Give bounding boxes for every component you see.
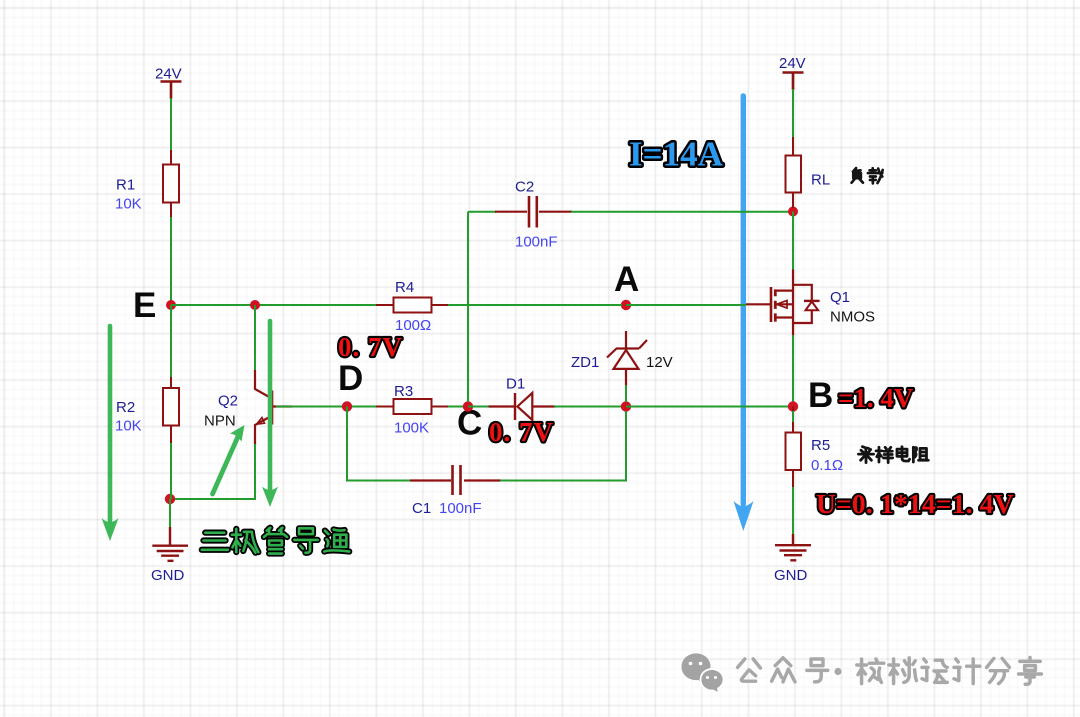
wire xyxy=(792,212,794,271)
watermark xyxy=(681,653,1041,693)
svg-text:R1: R1 xyxy=(116,177,135,194)
current arrow (blue) xyxy=(734,96,754,531)
wire xyxy=(554,406,622,408)
svg-text:R2: R2 xyxy=(116,399,135,416)
wire xyxy=(170,305,172,378)
svg-text:=1. 4V: =1. 4V xyxy=(838,383,914,413)
zener diode ZD1 xyxy=(571,331,673,386)
svg-text:0.1Ω: 0.1Ω xyxy=(811,457,843,474)
ground (right) xyxy=(774,534,811,584)
resistor R5 xyxy=(786,407,844,489)
wire xyxy=(468,211,496,213)
svg-text:RL: RL xyxy=(811,172,830,189)
wire xyxy=(171,444,255,499)
svg-text:24V: 24V xyxy=(155,66,182,83)
svg-text:24V: 24V xyxy=(779,55,806,72)
resistor R4 xyxy=(376,279,450,334)
svg-text:R4: R4 xyxy=(395,279,414,296)
label 采样电阻 xyxy=(858,447,928,463)
svg-text:100K: 100K xyxy=(394,420,429,437)
node A xyxy=(614,260,639,310)
wire xyxy=(171,304,377,306)
wire xyxy=(500,411,626,481)
wire xyxy=(170,98,172,151)
mosfet Q1 xyxy=(746,270,875,337)
svg-text:E: E xyxy=(133,286,156,325)
svg-text:I=14A: I=14A xyxy=(629,135,724,174)
svg-text:D1: D1 xyxy=(506,376,525,393)
wire xyxy=(169,499,171,528)
wire xyxy=(571,211,789,213)
wire xyxy=(170,443,172,499)
green arrow (left) xyxy=(102,326,119,541)
wire xyxy=(792,335,794,402)
svg-text:0. 7V: 0. 7V xyxy=(338,332,403,362)
svg-text:GND: GND xyxy=(151,567,185,584)
green arrow (middle) xyxy=(262,321,278,507)
wire xyxy=(448,304,622,306)
wire xyxy=(276,406,347,408)
node C xyxy=(457,401,482,442)
junction xyxy=(621,401,631,411)
wire xyxy=(792,89,794,138)
svg-text:100nF: 100nF xyxy=(439,500,482,517)
power flag 24V (left) xyxy=(155,66,182,100)
node B xyxy=(788,401,798,411)
wire xyxy=(467,212,469,402)
resistor RL xyxy=(786,137,831,208)
wire xyxy=(468,406,490,408)
svg-text:Q1: Q1 xyxy=(830,289,850,306)
wire xyxy=(170,217,172,303)
resistor R2 xyxy=(115,377,179,444)
ground (left) xyxy=(151,527,188,584)
node E xyxy=(133,286,176,325)
diode D1 xyxy=(489,376,556,421)
svg-text:GND: GND xyxy=(774,567,808,584)
resistor R3 xyxy=(352,383,450,437)
junction xyxy=(788,207,798,217)
annotation B=1.4V xyxy=(808,376,914,415)
svg-text:C2: C2 xyxy=(515,179,534,196)
svg-text:B: B xyxy=(808,376,833,415)
wire xyxy=(254,305,256,371)
wire xyxy=(625,385,627,402)
svg-text:10K: 10K xyxy=(115,196,142,213)
transistor Q2 xyxy=(204,370,292,445)
svg-text:R5: R5 xyxy=(811,437,830,454)
wire xyxy=(347,407,411,481)
svg-text:U=0. 1*14=1. 4V: U=0. 1*14=1. 4V xyxy=(816,488,1014,519)
capacitor C2 xyxy=(495,179,572,251)
svg-text:D: D xyxy=(338,359,363,398)
node D xyxy=(338,359,363,412)
green arrow (diagonal) xyxy=(213,425,245,494)
svg-text:10K: 10K xyxy=(115,418,142,435)
svg-text:100nF: 100nF xyxy=(515,234,558,251)
wire xyxy=(448,406,464,408)
label 负载 xyxy=(852,168,883,183)
svg-text:R3: R3 xyxy=(394,383,413,400)
svg-text:A: A xyxy=(614,260,639,299)
svg-text:0. 7V: 0. 7V xyxy=(489,417,554,447)
wire xyxy=(792,487,794,535)
svg-text:Q2: Q2 xyxy=(218,393,238,410)
resistor R1 xyxy=(115,150,179,218)
svg-text:ZD1: ZD1 xyxy=(571,354,599,371)
svg-text:12V: 12V xyxy=(646,354,673,371)
wire xyxy=(626,406,789,408)
junction xyxy=(165,494,175,504)
svg-text:C1: C1 xyxy=(412,500,431,517)
junction xyxy=(250,300,260,310)
capacitor C1 xyxy=(410,465,501,517)
power flag 24V (right) xyxy=(779,55,806,90)
svg-text:NPN: NPN xyxy=(204,413,236,430)
svg-text:NMOS: NMOS xyxy=(830,309,875,326)
annotation 三极管导通 xyxy=(202,528,350,554)
wire xyxy=(626,304,746,306)
